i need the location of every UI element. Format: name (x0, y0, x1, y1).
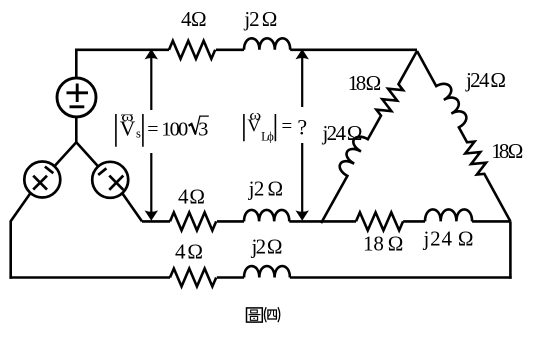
svg-text:3: 3 (198, 118, 208, 140)
resistor 4ohm top (169, 41, 215, 59)
glyph tu (picture) (247, 308, 263, 322)
wire bottom mid segment (217, 276, 244, 279)
wire top right segment (290, 48, 417, 51)
wire left source to corner (11, 180, 43, 279)
wire wye right diagonal (76, 142, 110, 180)
rotated plus (x) (109, 176, 123, 190)
inductor j2ohm top (244, 38, 290, 49)
svg-text:V: V (120, 116, 136, 140)
wire left vertical to source (75, 49, 78, 143)
svg-text:?: ? (297, 114, 307, 139)
wire delta bottom mid segment (403, 220, 425, 223)
svg-text:j2 Ω: j2 Ω (248, 177, 284, 201)
svg-text:s: s (136, 127, 141, 141)
svg-text:=: = (147, 118, 158, 140)
caption figure 4 (drawn CJK glyphs) (247, 307, 280, 322)
measurement arrow Vs (left, double headed) (145, 49, 158, 221)
resistor 4ohm middle (170, 212, 216, 230)
svg-text:j24 Ω: j24 Ω (465, 68, 506, 92)
label |Vs| = 100 sqrt3 (116, 110, 209, 147)
svg-text:18 Ω: 18 Ω (363, 232, 403, 256)
wire delta bottom right segment (472, 220, 510, 223)
svg-text:j2 Ω: j2 Ω (251, 235, 283, 259)
svg-text:j2 Ω: j2 Ω (243, 7, 277, 31)
rotated minus slash (45, 167, 53, 174)
plus sign (67, 84, 89, 103)
svg-text:18 Ω: 18 Ω (491, 139, 523, 163)
svg-text:4 Ω: 4 Ω (175, 240, 203, 264)
rotated plus (x) (33, 176, 47, 190)
inductor j24ohm delta bottom (425, 209, 472, 221)
resistor 18ohm delta bottom (356, 212, 403, 230)
wire wye left diagonal (42, 142, 76, 179)
svg-text:=: = (281, 116, 292, 137)
svg-text:4 Ω: 4 Ω (178, 185, 205, 209)
glyph si (four) (268, 310, 277, 319)
source Vc right circle (92, 162, 128, 198)
wire top mid segment (216, 48, 244, 51)
wire right source to middle wire (110, 180, 142, 222)
rotated minus slash (98, 168, 106, 175)
source Vb left circle (24, 162, 60, 198)
wire middle left segment (142, 220, 170, 223)
left paren (264, 307, 266, 322)
svg-text:V: V (247, 115, 260, 135)
wire middle mid segment (217, 220, 244, 223)
wire delta bottom left segment (322, 220, 356, 223)
delta left branch with resistor 18ohm and inductor j24ohm (311, 45, 423, 226)
minus sign (70, 105, 85, 108)
svg-text:ϕ: ϕ (267, 129, 274, 143)
delta right branch with inductor j24ohm and resistor 18ohm (411, 45, 521, 224)
svg-text:j24 Ω: j24 Ω (423, 227, 474, 251)
measurement arrow VL (right, double headed) (296, 49, 309, 221)
svg-text:18 Ω: 18 Ω (348, 71, 382, 95)
inductor j2ohm bottom (244, 266, 290, 277)
wire middle right segment (289, 220, 322, 223)
wire bottom left segment (9, 276, 170, 279)
wire bottom right segment (290, 276, 512, 279)
right paren (278, 307, 280, 322)
svg-text:100: 100 (161, 118, 188, 140)
wire top-left segment (75, 48, 169, 51)
svg-text:4 Ω: 4 Ω (181, 7, 207, 31)
resistor 4ohm bottom (170, 269, 216, 287)
source Va top circle (57, 78, 96, 117)
wire right vertical (509, 221, 512, 278)
label |VLphi| = ? (244, 108, 307, 143)
inductor j2ohm middle (244, 210, 289, 221)
svg-text:j24 Ω: j24 Ω (322, 121, 363, 145)
